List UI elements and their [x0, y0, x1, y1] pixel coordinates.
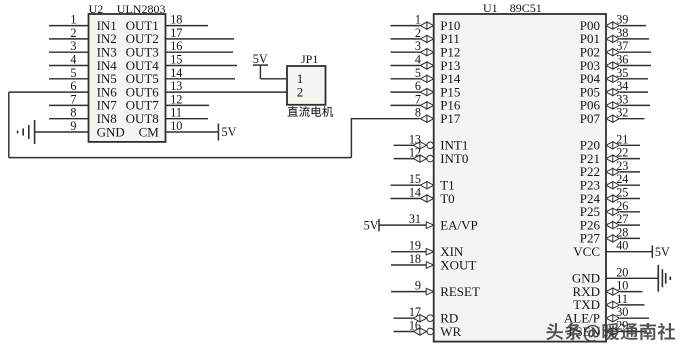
U1 pin name ALE/P: [564, 311, 600, 326]
svg-text:36: 36: [616, 53, 628, 67]
U2 pin 14 number: [170, 66, 182, 80]
U1 pin name P11: [440, 31, 460, 46]
U1 pin 13 wire (INT1): [394, 144, 415, 146]
U1 pin 8 number: [415, 106, 421, 120]
svg-text:27: 27: [616, 212, 628, 226]
U1 pin 5 number: [415, 66, 421, 80]
U2 pin name IN6: [97, 84, 118, 99]
U2 pin 10 wire: [166, 131, 219, 133]
JP1 label DC motor (Chinese): [288, 106, 334, 117]
U1 pin 15 wire (T1): [391, 184, 421, 186]
svg-text:8: 8: [415, 106, 421, 120]
svg-text:13: 13: [409, 132, 421, 146]
U1 pin 18 wire (XOUT): [391, 264, 427, 266]
U1 pin 9 wire (RESET): [391, 291, 427, 293]
U1 pin 16 wire (WR): [394, 331, 415, 333]
svg-text:3: 3: [70, 39, 76, 53]
U1 pin 22 I/O arrow: [606, 155, 619, 162]
svg-text:CM: CM: [139, 124, 160, 139]
U1 pin 3 number: [415, 39, 421, 53]
U1 pin 7 I/O arrow: [420, 102, 433, 109]
U2 pin name IN5: [97, 71, 117, 86]
U1 pin name P07: [580, 111, 601, 126]
svg-text:RESET: RESET: [440, 284, 480, 299]
U1 pin name P16: [440, 98, 461, 113]
U1 pin 37 number: [616, 39, 628, 53]
U1 pin 26 number: [616, 199, 628, 213]
svg-text:5: 5: [415, 66, 421, 80]
U1 pin name TXD: [573, 297, 600, 312]
svg-text:9: 9: [415, 279, 421, 293]
U2 pin name OUT2: [126, 31, 159, 46]
U2 pin name IN2: [97, 31, 117, 46]
U1 pin 34 wire (P05): [620, 91, 648, 93]
U2 pin name OUT6: [126, 84, 160, 99]
U1 pin name P15: [440, 84, 460, 99]
svg-text:4: 4: [70, 53, 76, 67]
svg-text:EA/VP: EA/VP: [440, 217, 478, 232]
svg-text:14: 14: [409, 186, 421, 200]
U1 pin 1 number: [415, 13, 421, 27]
U1 pin 1 I/O arrow: [420, 22, 433, 29]
power 5V symbol at U2 CM: [218, 124, 236, 141]
U1 pin 35 number: [616, 66, 628, 80]
U2 pin name IN4: [97, 58, 118, 73]
svg-text:31: 31: [409, 212, 421, 226]
U1 pin 36 I/O arrow: [606, 62, 619, 69]
U1 pin 18 number: [409, 252, 421, 266]
U1 pin 3 wire (P12): [391, 51, 421, 53]
U2 pin 5 wire: [49, 78, 89, 80]
U2 pin 8 number: [70, 106, 76, 120]
ground symbol (U1 GND): [658, 265, 670, 292]
U1 pin 7 wire (P16): [391, 104, 421, 106]
U1 pin 22 number: [616, 146, 628, 160]
U1 pin 25 number: [616, 186, 628, 200]
U1 pin 23 I/O arrow: [606, 168, 619, 175]
U1 pin 10 wire (RXD): [620, 291, 642, 293]
U1 pin name RD: [440, 311, 458, 326]
U1 pin name P24: [580, 191, 601, 206]
U1 pin 14 number: [409, 186, 421, 200]
U1 pin 3 I/O arrow: [420, 49, 433, 56]
U1 pin 39 number: [616, 13, 628, 27]
U1 pin name P02: [580, 45, 600, 60]
U1 pin 33 wire (P06): [620, 104, 650, 106]
U1 pin 27 wire (P26): [620, 224, 640, 226]
svg-text:22: 22: [616, 146, 628, 160]
U1 pin 15 I/O arrow: [420, 182, 433, 189]
svg-text:30: 30: [616, 305, 628, 319]
U1 pin name P03: [580, 58, 600, 73]
svg-text:32: 32: [616, 106, 628, 120]
U1 pin name XOUT: [440, 257, 476, 272]
svg-text:19: 19: [409, 239, 421, 253]
U1 pin 22 wire (P21): [620, 158, 640, 160]
U1 pin 12 I/O arrow: [413, 155, 426, 162]
U2 pin 16 wire: [166, 51, 234, 53]
svg-text:2: 2: [415, 26, 421, 40]
U2 pin 17 number: [170, 26, 182, 40]
U2 pin name CM: [139, 124, 160, 139]
svg-text:40: 40: [616, 239, 628, 253]
wire 5V to JP1 pin 1: [260, 65, 287, 79]
U1 pin 11 number: [616, 292, 628, 306]
U1 pin 20 number: [616, 265, 628, 279]
U1 pin 2 I/O arrow: [420, 35, 433, 42]
U1 pin name P00: [580, 18, 600, 33]
U1 pin 31 wire (EA/VP): [379, 224, 427, 226]
svg-text:16: 16: [409, 319, 421, 333]
svg-text:ULN2803: ULN2803: [117, 2, 166, 16]
U1 pin name P10: [440, 18, 460, 33]
svg-text:6: 6: [70, 79, 76, 93]
svg-text:15: 15: [170, 53, 182, 67]
wire net IN6-P17 (to P17 pin): [351, 118, 419, 120]
U1 pin 27 I/O arrow: [606, 222, 619, 229]
U1 pin 24 I/O arrow: [606, 182, 619, 189]
U1 pin name P21: [580, 151, 600, 166]
svg-text:XOUT: XOUT: [440, 257, 476, 272]
U2 pin 16 number: [170, 39, 182, 53]
U2 pin name IN1: [97, 18, 117, 33]
svg-text:7: 7: [415, 92, 421, 106]
U2 pin 5 number: [70, 66, 76, 80]
svg-text:13: 13: [170, 79, 182, 93]
U1 pin 14 I/O arrow: [420, 195, 433, 202]
U1 pin 13 inversion bubble: [427, 142, 434, 149]
U2 pin 18 wire: [166, 25, 209, 27]
U1 pin 38 number: [616, 26, 628, 40]
U2 pin 1 number: [70, 13, 76, 27]
svg-text:17: 17: [409, 305, 421, 319]
power 5V symbol at EA/VP: [364, 218, 379, 232]
U2 pin 10 number: [170, 119, 182, 133]
U1 reference designator: [483, 1, 498, 15]
wire net IN6-P17 (left vertical): [8, 92, 10, 158]
U1 pin 32 number: [616, 106, 628, 120]
U2 pin 2 wire: [49, 38, 89, 40]
U1 pin 30 wire (ALE/P): [620, 317, 649, 319]
svg-text:18: 18: [409, 252, 421, 266]
U2 pin 1 wire: [49, 25, 89, 27]
U1 pin 30 I/O arrow: [606, 315, 619, 322]
U1 pin 9 input arrow: [426, 288, 434, 295]
power 5V symbol at VCC: [652, 245, 670, 259]
U2 pin 18 number: [170, 13, 182, 27]
U1 pin 31 input arrow: [426, 222, 434, 229]
U1 pin 7 number: [415, 92, 421, 106]
svg-text:17: 17: [170, 26, 182, 40]
svg-text:8: 8: [70, 106, 76, 120]
U2 pin 17 wire: [166, 38, 235, 40]
U2 pin name OUT5: [126, 71, 159, 86]
ground symbol (U2 GND): [18, 120, 35, 144]
U1 pin 11 wire (TXD): [620, 304, 644, 306]
U1 pin 5 wire (P14): [391, 78, 421, 80]
U1 pin name P17: [440, 111, 461, 126]
U1 pin 6 wire (P15): [391, 91, 421, 93]
U2 pin 4 number: [70, 53, 76, 67]
U1 pin 29 I/O arrow: [606, 328, 619, 335]
U1 pin name WR: [440, 324, 461, 339]
U1 pin 37 wire (P02): [620, 51, 651, 53]
svg-text:5V: 5V: [253, 52, 268, 66]
U1 pin 9 number: [415, 279, 421, 293]
U1 pin 32 wire (P07): [620, 118, 645, 120]
U1 pin name P01: [580, 31, 600, 46]
U2 pin 14 wire: [166, 78, 236, 80]
U1 pin 2 number: [415, 26, 421, 40]
U2 pin name IN8: [97, 111, 117, 126]
svg-text:16: 16: [170, 39, 182, 53]
U1 pin 12 wire (INT0): [394, 158, 415, 160]
U1 pin 16 I/O arrow: [413, 328, 426, 335]
svg-text:VCC: VCC: [573, 244, 600, 259]
U1 pin 38 I/O arrow: [606, 35, 619, 42]
U1 pin 38 wire (P01): [620, 38, 649, 40]
U1 pin name P25: [580, 204, 600, 219]
svg-text:P07: P07: [580, 111, 601, 126]
svg-text:WR: WR: [440, 324, 461, 339]
U2 pin 9 number: [70, 119, 76, 133]
U1 pin name P14: [440, 71, 461, 86]
U1 pin name P13: [440, 58, 460, 73]
U1 pin 21 number: [616, 132, 628, 146]
U1 pin name P20: [580, 138, 600, 153]
U1 pin 30 number: [616, 305, 628, 319]
U1 pin 33 number: [616, 92, 628, 106]
svg-text:11: 11: [616, 292, 628, 306]
U2 reference designator: [89, 2, 104, 16]
power 5V symbol at JP1: [253, 52, 268, 66]
connector JP1 body: [287, 66, 326, 105]
U2 pin 3 wire: [49, 51, 89, 53]
wire net IN6-P17 (right vertical): [350, 118, 352, 158]
svg-text:18: 18: [170, 13, 182, 27]
svg-text:JP1: JP1: [301, 52, 318, 66]
U1 pin name GND: [572, 271, 600, 286]
U2 pin 8 wire: [49, 118, 89, 120]
svg-text:T0: T0: [440, 191, 454, 206]
U1 pin 28 number: [616, 225, 628, 239]
svg-text:9: 9: [70, 119, 76, 133]
U1 pin 29 number: [616, 319, 628, 333]
U2 pin 11 number: [170, 106, 182, 120]
U1 pin 16 number: [409, 319, 421, 333]
svg-text:25: 25: [616, 186, 628, 200]
U1 pin 14 wire (T0): [391, 198, 421, 200]
U1 pin 34 I/O arrow: [606, 89, 619, 96]
U1 pin name P12: [440, 45, 460, 60]
svg-text:10: 10: [170, 119, 182, 133]
U2 pin name GND: [97, 124, 125, 139]
U1 pin 37 I/O arrow: [606, 49, 619, 56]
U1 pin name P26: [580, 217, 601, 232]
U1 pin name P06: [580, 98, 601, 113]
wire net IN6-P17 (bottom horizontal): [9, 157, 352, 159]
U1 pin 40 number: [616, 239, 628, 253]
U1 pin name P05: [580, 84, 600, 99]
U1 pin 35 wire (P04): [620, 78, 648, 80]
U1 pin name P04: [580, 71, 601, 86]
U1 pin 6 number: [415, 79, 421, 93]
U1 pin 12 inversion bubble: [427, 155, 434, 162]
U1 pin 17 number: [409, 305, 421, 319]
U1 pin 24 number: [616, 172, 628, 186]
U1 pin 13 I/O arrow: [413, 142, 426, 149]
U1 pin 2 wire (P11): [391, 38, 421, 40]
U1 part value 89C51: [510, 1, 542, 15]
U1 pin 40 wire (VCC): [606, 251, 652, 253]
U2 pin name IN3: [97, 45, 117, 60]
U2 pin name OUT8: [126, 111, 159, 126]
U1 pin 17 I/O arrow: [413, 315, 426, 322]
svg-text:P17: P17: [440, 111, 461, 126]
svg-text:5: 5: [70, 66, 76, 80]
U1 pin name EA/VP: [440, 217, 478, 232]
U1 pin name P22: [580, 164, 600, 179]
U1 pin name P23: [580, 178, 600, 193]
U1 pin 18 input arrow: [426, 262, 434, 269]
U1 pin 32 I/O arrow: [606, 115, 619, 122]
U1 pin name XIN: [440, 244, 464, 259]
U1 pin 36 wire (P03): [620, 65, 651, 67]
U1 pin name INT0: [440, 151, 468, 166]
U2 pin name OUT4: [126, 58, 160, 73]
svg-text:1: 1: [70, 13, 76, 27]
svg-text:14: 14: [170, 66, 182, 80]
U2 pin name OUT3: [126, 45, 159, 60]
U1 pin 17 inversion bubble: [427, 315, 434, 322]
IC U1 89C51 body: [434, 14, 606, 342]
U2 part value ULN2803: [117, 2, 166, 16]
U1 pin name T0: [440, 191, 454, 206]
U1 pin 1 wire (P10): [391, 25, 421, 27]
U2 pin 15 number: [170, 53, 182, 67]
U2 pin 15 wire: [166, 65, 238, 67]
svg-text:4: 4: [415, 53, 421, 67]
JP1 pin 2 label: [297, 84, 304, 99]
svg-text:21: 21: [616, 132, 628, 146]
svg-text:33: 33: [616, 92, 628, 106]
U1 pin name T1: [440, 178, 454, 193]
U1 pin 24 wire (P23): [620, 184, 640, 186]
svg-text:12: 12: [409, 146, 421, 160]
JP1 reference designator: [301, 52, 318, 66]
svg-text:3: 3: [415, 39, 421, 53]
svg-text:5V: 5V: [655, 245, 670, 259]
svg-text:2: 2: [297, 84, 304, 99]
svg-text:INT0: INT0: [440, 151, 468, 166]
U1 pin 33 I/O arrow: [606, 102, 619, 109]
U2 pin 13 wire OUT6 to JP1 pin 2: [166, 91, 288, 93]
svg-text:GND: GND: [97, 124, 125, 139]
svg-text:1: 1: [415, 13, 421, 27]
U1 pin 4 number: [415, 53, 421, 67]
svg-text:10: 10: [616, 279, 628, 293]
U1 pin 4 I/O arrow: [420, 62, 433, 69]
svg-text:23: 23: [616, 159, 628, 173]
U1 pin 10 number: [616, 279, 628, 293]
svg-text:2: 2: [70, 26, 76, 40]
U1 pin 27 number: [616, 212, 628, 226]
U1 pin 25 I/O arrow: [606, 195, 619, 202]
U1 pin name RESET: [440, 284, 480, 299]
U1 pin 13 number: [409, 132, 421, 146]
U1 pin 16 inversion bubble: [427, 328, 434, 335]
wire net from U2 IN6 to U1 P17 (left segment): [9, 91, 89, 93]
U1 pin name PSEN: [568, 324, 600, 339]
U1 pin 26 I/O arrow: [606, 208, 619, 215]
U1 pin name INT1: [440, 138, 468, 153]
svg-text:38: 38: [616, 26, 628, 40]
U1 pin 23 number: [616, 159, 628, 173]
U1 pin 8 I/O arrow (P17): [420, 115, 433, 122]
svg-text:37: 37: [616, 39, 628, 53]
U1 pin 5 I/O arrow: [420, 75, 433, 82]
U1 pin 39 I/O arrow: [606, 22, 619, 29]
U1 pin 19 number: [409, 239, 421, 253]
svg-text:6: 6: [415, 79, 421, 93]
U1 pin 31 number: [409, 212, 421, 226]
U1 pin 29 wire (PSEN): [620, 331, 646, 333]
U1 pin 35 I/O arrow: [606, 75, 619, 82]
svg-text:5V: 5V: [364, 218, 379, 232]
U1 pin 39 wire (P00): [620, 25, 646, 27]
svg-text:15: 15: [409, 172, 421, 186]
svg-text:35: 35: [616, 66, 628, 80]
svg-text:U2: U2: [89, 2, 104, 16]
U2 pin 9 wire (GND): [35, 131, 89, 133]
U1 pin 21 I/O arrow: [606, 142, 619, 149]
U1 pin 12 number: [409, 146, 421, 160]
U1 pin 34 number: [616, 79, 628, 93]
U2 pin 3 number: [70, 39, 76, 53]
U1 pin 28 wire (P27): [620, 237, 640, 239]
svg-text:20: 20: [616, 265, 628, 279]
watermark text (Toutiao @nuantongnanshe): [546, 323, 675, 342]
svg-text:34: 34: [616, 79, 628, 93]
JP1 pin 1 label: [297, 71, 304, 86]
U2 pin 7 wire: [49, 104, 89, 106]
U2 pin 7 number: [70, 92, 76, 106]
U1 pin 26 wire (P25): [620, 211, 640, 213]
U1 pin 25 wire (P24): [620, 198, 640, 200]
U2 pin 12 wire: [166, 104, 210, 106]
U2 pin name OUT7: [126, 98, 160, 113]
U1 pin name P27: [580, 231, 601, 246]
svg-text:26: 26: [616, 199, 628, 213]
svg-text:5V: 5V: [222, 125, 237, 139]
svg-text:7: 7: [70, 92, 76, 106]
U1 pin 6 I/O arrow: [420, 89, 433, 96]
U1 pin 19 input arrow: [426, 248, 434, 255]
U2 pin 4 wire: [49, 65, 89, 67]
U2 pin 11 wire: [166, 118, 209, 120]
U1 pin name RXD: [573, 284, 600, 299]
U2 pin 2 number: [70, 26, 76, 40]
U1 pin 15 number: [409, 172, 421, 186]
U2 pin 6 number: [70, 79, 76, 93]
U2 pin name IN7: [97, 98, 118, 113]
svg-text:89C51: 89C51: [510, 1, 542, 15]
svg-text:11: 11: [170, 106, 182, 120]
svg-text:24: 24: [616, 172, 628, 186]
svg-text:39: 39: [616, 13, 628, 27]
svg-text:12: 12: [170, 92, 182, 106]
U1 pin 11 I/O arrow: [606, 301, 619, 308]
